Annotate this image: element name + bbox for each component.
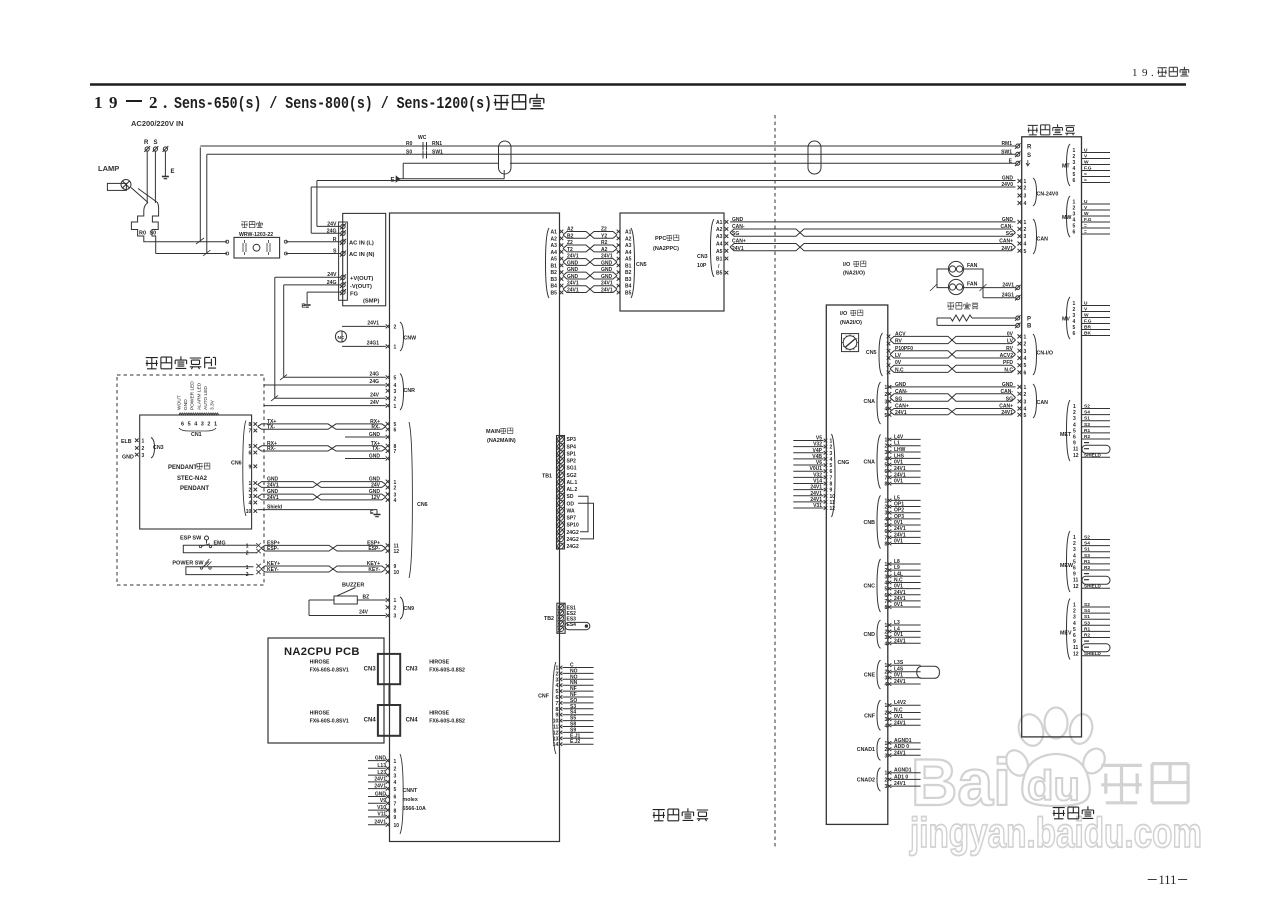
svg-text:CNE: CNE (864, 673, 876, 679)
svg-text:2: 2 (1073, 609, 1076, 615)
svg-text:A2: A2 (716, 227, 723, 233)
svg-text:S: S (333, 248, 337, 254)
svg-text:2: 2 (885, 392, 888, 398)
svg-text:I/O: I/O (843, 262, 851, 268)
svg-text:SW1: SW1 (432, 149, 443, 155)
shield wire and ground (258, 509, 377, 511)
svg-text:11: 11 (1073, 578, 1079, 584)
page header rule (90, 83, 1186, 86)
connector CN6 MAIN (386, 422, 390, 426)
svg-text:12: 12 (830, 506, 836, 512)
svg-text:MW: MW (1062, 215, 1071, 221)
svg-text:2: 2 (246, 550, 249, 556)
svg-text:8: 8 (394, 808, 397, 814)
svg-text:CN3: CN3 (364, 667, 377, 673)
svg-text:5: 5 (394, 376, 397, 382)
svg-text:1: 1 (830, 439, 833, 445)
svg-text:5: 5 (188, 422, 191, 428)
svg-text:7: 7 (885, 535, 888, 541)
svg-text:CN1: CN1 (191, 432, 202, 438)
svg-text:9: 9 (109, 93, 118, 112)
svg-text:6: 6 (830, 469, 833, 475)
svg-text:3: 3 (1073, 416, 1076, 422)
wire S0 output (155, 242, 157, 254)
svg-text:P: P (1027, 316, 1031, 322)
svg-text:FX6-60S-0.8S2: FX6-60S-0.8S2 (429, 719, 465, 725)
svg-text:2: 2 (885, 747, 888, 753)
svg-text:CNNT: CNNT (403, 788, 418, 794)
svg-text:CNAD1: CNAD1 (857, 747, 875, 753)
svg-text:+V(OUT): +V(OUT) (350, 276, 373, 282)
svg-text:HIROSE: HIROSE (429, 660, 449, 666)
svg-text:5: 5 (394, 787, 397, 793)
svg-text:1: 1 (1024, 220, 1027, 226)
wire RM1 top (200, 145, 1015, 147)
svg-text:FX6-60S-0.8S2: FX6-60S-0.8S2 (429, 668, 465, 674)
circuit breaker ELB body (131, 188, 158, 203)
svg-text:3: 3 (885, 784, 888, 790)
svg-text:CNR: CNR (404, 388, 416, 394)
svg-text:B1: B1 (716, 257, 723, 263)
svg-text:SP10: SP10 (567, 523, 579, 529)
label control box side (653, 810, 665, 821)
svg-text:B5: B5 (716, 271, 723, 277)
wire filter to PSU AC L (286, 241, 341, 243)
svg-text:CNF: CNF (538, 694, 550, 700)
noise filter box (234, 237, 280, 258)
svg-text:R0: R0 (406, 141, 413, 147)
svg-text:CN5: CN5 (636, 262, 647, 268)
svg-text:24V: 24V (359, 610, 369, 616)
svg-text:B2: B2 (625, 270, 632, 276)
svg-text:.: . (163, 93, 167, 112)
PSU terminal S (341, 251, 345, 255)
svg-text:MEV: MEV (1060, 631, 1072, 637)
svg-text:24V: 24V (370, 400, 380, 406)
svg-text:CNA: CNA (864, 459, 876, 465)
filter internal capacitors (243, 240, 246, 255)
svg-text:1: 1 (885, 437, 888, 443)
svg-text:10P: 10P (697, 263, 707, 269)
connector CNA I/O right (877, 382, 881, 424)
svg-text:12: 12 (1073, 453, 1079, 459)
svg-text:OD: OD (567, 501, 575, 507)
svg-text:4: 4 (394, 780, 397, 786)
svg-text:1: 1 (1132, 67, 1138, 79)
svg-text:HIROSE: HIROSE (429, 711, 449, 717)
svg-text:A2: A2 (625, 236, 632, 242)
wire GND rail top (317, 180, 1016, 182)
regenerative resistor label (947, 303, 954, 309)
svg-text:3.3V: 3.3V (210, 399, 216, 410)
svg-text:CND: CND (864, 632, 876, 638)
svg-text:24G: 24G (370, 379, 380, 385)
svg-text:4: 4 (394, 498, 397, 504)
svg-text:9: 9 (1142, 67, 1148, 79)
svg-text:GND: GND (122, 455, 134, 461)
svg-text:7: 7 (885, 475, 888, 481)
svg-text:NA2CPU PCB: NA2CPU PCB (284, 646, 360, 658)
svg-text:3: 3 (1024, 194, 1027, 200)
svg-text:CNF: CNF (864, 713, 876, 719)
svg-text:1: 1 (246, 565, 249, 571)
svg-text:A3: A3 (551, 243, 558, 249)
svg-text:1: 1 (394, 759, 397, 765)
svg-text:B5: B5 (625, 291, 632, 297)
svg-text:2: 2 (394, 486, 397, 492)
svg-text:B4: B4 (551, 284, 558, 290)
svg-text:24V1: 24V1 (367, 321, 379, 327)
svg-text:SD: SD (567, 494, 574, 500)
svg-text:1: 1 (249, 481, 252, 487)
svg-text:7: 7 (885, 599, 888, 605)
svg-text:CNAD2: CNAD2 (857, 777, 875, 783)
svg-text:B5: B5 (551, 291, 558, 297)
svg-text:1: 1 (1024, 385, 1027, 391)
TB2 jumper pill (565, 622, 590, 629)
svg-text:4: 4 (1073, 422, 1076, 428)
svg-text:A4: A4 (551, 250, 558, 256)
svg-text:2: 2 (149, 93, 158, 112)
svg-text:CN9: CN9 (404, 606, 415, 612)
svg-text:POWER SW: POWER SW (172, 561, 204, 567)
svg-text:3: 3 (885, 676, 888, 682)
terminal strip TB1 (557, 436, 565, 550)
svg-text:6: 6 (1024, 370, 1027, 376)
svg-text:MEW: MEW (1060, 563, 1073, 569)
svg-text:PPC: PPC (655, 236, 666, 242)
svg-text:/: / (718, 264, 720, 270)
svg-text:MV: MV (1062, 317, 1070, 323)
connector CN1 coils (179, 413, 219, 416)
svg-text:B4: B4 (625, 284, 632, 290)
svg-text:CAN+: CAN+ (732, 239, 746, 245)
svg-text:6: 6 (1073, 230, 1076, 236)
svg-text:4: 4 (194, 422, 198, 428)
svg-text:4: 4 (885, 723, 888, 729)
wire PSU 24G up to 24V0 rail (311, 232, 341, 234)
svg-text:11: 11 (830, 500, 836, 506)
svg-text:6: 6 (1073, 178, 1076, 184)
cable marker pill left (499, 141, 512, 174)
svg-text:1: 1 (394, 345, 397, 351)
connector CND (877, 620, 881, 648)
feeder tap R vertical (199, 147, 201, 241)
svg-text:5: 5 (830, 463, 833, 469)
wire PSU +V down rail (275, 276, 341, 278)
svg-text:24V1: 24V1 (732, 246, 744, 252)
svg-text:10: 10 (830, 494, 836, 500)
svg-text:5: 5 (885, 463, 888, 469)
cable marker pill right (808, 141, 821, 174)
wire E drop and arrow (402, 163, 404, 179)
operator box unit title (146, 358, 158, 369)
svg-text:9: 9 (1073, 441, 1076, 447)
svg-text:7: 7 (830, 475, 833, 481)
svg-text:8: 8 (885, 542, 888, 548)
wire bundle PPC to servo CAN (730, 221, 1016, 223)
svg-text:SP4: SP4 (567, 444, 577, 450)
connector CNF MAIN (553, 662, 556, 754)
svg-text:24V0: 24V0 (1001, 182, 1013, 188)
svg-text:7: 7 (249, 429, 252, 435)
fan wiring box (937, 269, 983, 288)
watermark baidu paw logo (1002, 708, 1109, 807)
svg-text:4: 4 (885, 407, 888, 413)
NA2CPU PCB box (268, 638, 384, 743)
svg-text:CN6: CN6 (231, 461, 242, 467)
svg-text:4: 4 (830, 457, 833, 463)
svg-text:5: 5 (249, 444, 252, 450)
svg-text:1: 1 (885, 498, 888, 504)
wire pair RX to CN6 (258, 446, 386, 449)
svg-text:4: 4 (1073, 621, 1076, 627)
svg-text:6: 6 (885, 529, 888, 535)
svg-text:12: 12 (394, 549, 400, 555)
svg-text:STEC-NA2: STEC-NA2 (177, 476, 208, 482)
svg-text:B1: B1 (551, 263, 558, 269)
CN6 GND stubs (345, 436, 386, 438)
svg-text:2: 2 (142, 446, 145, 452)
svg-text:6: 6 (249, 451, 252, 457)
svg-text:SP3: SP3 (567, 437, 577, 443)
dashed divider control-box / machine side (774, 115, 776, 847)
svg-text:3: 3 (201, 422, 204, 428)
svg-text:2: 2 (885, 444, 888, 450)
svg-text:4: 4 (885, 682, 888, 688)
svg-text:4: 4 (885, 641, 888, 647)
filter label (241, 222, 247, 228)
wire pair TX to CN6 (258, 424, 386, 427)
I/O board box NA2I/O (826, 305, 888, 824)
svg-text:A4: A4 (625, 250, 632, 256)
svg-text:A5: A5 (716, 249, 723, 255)
connector CN5 MAIN-PPC bundle (546, 228, 550, 298)
svg-text:SG: SG (732, 231, 739, 237)
svg-text:1: 1 (885, 385, 888, 391)
svg-text:5: 5 (1073, 428, 1076, 434)
svg-text:E: E (370, 510, 374, 516)
wire bundle CNA to servo CAN (890, 386, 1016, 388)
svg-text:A3: A3 (716, 234, 723, 240)
svg-text:jingyan.baidu.com: jingyan.baidu.com (909, 809, 1202, 856)
svg-text:4: 4 (885, 580, 888, 586)
svg-text:2: 2 (1024, 392, 1027, 398)
svg-text:11: 11 (1073, 645, 1079, 651)
svg-text:molex: molex (403, 797, 418, 803)
lamp symbol (107, 183, 126, 190)
svg-text:5: 5 (885, 523, 888, 529)
svg-text:ESP SW: ESP SW (180, 536, 202, 542)
MEV shield loop (1082, 644, 1110, 652)
terminal strip TB2 (557, 603, 565, 633)
svg-text:5566-10A: 5566-10A (403, 806, 426, 812)
svg-text:3: 3 (1073, 547, 1076, 553)
svg-text:1: 1 (94, 93, 103, 112)
svg-text:11: 11 (1073, 447, 1079, 453)
svg-text:3: 3 (394, 773, 397, 779)
NC motor circle (335, 331, 346, 342)
svg-text:3: 3 (142, 453, 145, 459)
connector CNW (386, 324, 390, 328)
svg-text:3: 3 (830, 451, 833, 457)
svg-text:6: 6 (885, 469, 888, 475)
svg-text:3: 3 (885, 450, 888, 456)
connector CNF (877, 700, 881, 730)
PPC right connector CN3 10P (711, 219, 715, 277)
connector MEW (1067, 531, 1071, 592)
svg-text:(NA2I/O): (NA2I/O) (843, 271, 865, 277)
svg-text:2: 2 (1073, 410, 1076, 416)
svg-text:du: du (1027, 762, 1080, 809)
svg-text:10: 10 (394, 823, 400, 829)
svg-text:I/O: I/O (840, 311, 848, 317)
connector MW (1067, 196, 1071, 237)
PSU terminal 24G (341, 231, 345, 235)
MEW shield loop (1082, 576, 1110, 584)
svg-text:CN3: CN3 (697, 254, 708, 260)
connector CNAD1 (877, 738, 881, 760)
svg-text:S0: S0 (150, 231, 157, 237)
ground E at input (164, 152, 166, 177)
svg-text:8: 8 (830, 481, 833, 487)
svg-text:14: 14 (553, 742, 559, 748)
svg-text:1: 1 (1073, 603, 1076, 609)
svg-text:2: 2 (885, 505, 888, 511)
svg-text:24G2: 24G2 (567, 530, 579, 536)
svg-text:CNW: CNW (404, 336, 417, 342)
svg-text:3: 3 (885, 717, 888, 723)
wire PSU 24V up to GND rail (317, 225, 341, 227)
svg-text:5: 5 (1024, 363, 1027, 369)
svg-text:B2: B2 (551, 270, 558, 276)
svg-text:WC: WC (418, 135, 427, 141)
svg-text:8: 8 (249, 422, 252, 428)
svg-text:1: 1 (142, 439, 145, 445)
svg-text:2: 2 (249, 488, 252, 494)
svg-text:3: 3 (1073, 615, 1076, 621)
svg-text:8: 8 (885, 482, 888, 488)
svg-text:A3: A3 (625, 243, 632, 249)
connector CNC (877, 559, 881, 612)
connector MV (1067, 297, 1071, 339)
svg-text:RM1: RM1 (1001, 141, 1012, 147)
ESP switch body (183, 545, 257, 553)
svg-text:2: 2 (885, 711, 888, 717)
ground E at PSU (304, 304, 311, 306)
svg-text:9: 9 (394, 815, 397, 821)
svg-text:4: 4 (1073, 553, 1076, 559)
rotary switch (842, 334, 859, 352)
svg-text:AUTO LED: AUTO LED (203, 386, 209, 410)
svg-text:3: 3 (885, 753, 888, 759)
svg-text:9: 9 (830, 488, 833, 494)
svg-text:E: E (171, 169, 175, 175)
svg-text:MAIN: MAIN (486, 429, 500, 435)
svg-text:FX6-60S-0.8SV1: FX6-60S-0.8SV1 (310, 668, 349, 674)
watermark jingyan characters (1101, 765, 1142, 802)
svg-text:4: 4 (1024, 356, 1027, 362)
svg-text:6: 6 (1073, 331, 1076, 337)
svg-text:AC200/220V IN: AC200/220V IN (131, 119, 184, 128)
connector CN5 I/O (879, 333, 883, 376)
svg-text:7: 7 (394, 802, 397, 808)
svg-text:24G2: 24G2 (567, 537, 579, 543)
svg-text:1: 1 (885, 703, 888, 709)
svg-text:AC IN (N): AC IN (N) (349, 252, 375, 258)
svg-text:2: 2 (394, 767, 397, 773)
svg-text:2: 2 (207, 422, 210, 428)
connector MET (1067, 400, 1071, 461)
svg-text:CN3: CN3 (153, 445, 164, 451)
svg-text:2: 2 (1024, 227, 1027, 233)
svg-text:5: 5 (885, 413, 888, 419)
svg-text:6: 6 (1073, 566, 1076, 572)
MAIN board box NA2MAIN (390, 213, 560, 842)
svg-text:4: 4 (885, 517, 888, 523)
power supply SMP box (343, 213, 386, 305)
PSU terminal strip (339, 222, 348, 300)
svg-text:ALARM LED: ALARM LED (196, 382, 202, 410)
pendant dashed enclosure (117, 375, 264, 585)
svg-text:CNG: CNG (838, 460, 850, 466)
svg-text:(SMP): (SMP) (363, 299, 379, 305)
svg-text:6: 6 (394, 795, 397, 801)
svg-text:4: 4 (249, 501, 252, 507)
connector CNE (877, 660, 881, 689)
svg-text:6: 6 (885, 593, 888, 599)
wire SW1 top (207, 153, 1016, 155)
svg-text:E: E (302, 304, 306, 310)
svg-text:CNA: CNA (864, 399, 876, 405)
svg-text:24V: 24V (370, 392, 380, 398)
svg-text:MET: MET (1060, 432, 1072, 438)
POWER switch body (186, 567, 254, 575)
CNW wires (342, 325, 386, 327)
servo terminal B (1016, 323, 1020, 327)
svg-text:S: S (154, 140, 158, 146)
svg-text:1: 1 (246, 544, 249, 550)
svg-text:CN6: CN6 (417, 502, 428, 508)
PSU terminal 24V (341, 275, 345, 279)
svg-text:1: 1 (394, 404, 397, 410)
svg-text:1: 1 (885, 623, 888, 629)
svg-text:CAN-: CAN- (732, 224, 745, 230)
PSU terminal R (341, 240, 345, 244)
svg-text:(NA2PPC): (NA2PPC) (653, 246, 679, 252)
svg-text:SW1: SW1 (1001, 149, 1012, 155)
svg-text:BUZZER: BUZZER (342, 583, 364, 589)
svg-text:B: B (1027, 324, 1032, 330)
svg-text:GND: GND (732, 217, 744, 223)
svg-text:CNB: CNB (864, 520, 876, 526)
svg-text:2: 2 (1024, 342, 1027, 348)
svg-text:R: R (333, 237, 337, 243)
servo unit title (1028, 125, 1038, 134)
connector MEV (1067, 599, 1071, 660)
svg-text:CAN: CAN (1037, 400, 1049, 406)
svg-text:4: 4 (885, 456, 888, 462)
svg-text:5: 5 (1073, 627, 1076, 633)
svg-text:3: 3 (885, 399, 888, 405)
CNE jumper pill (917, 666, 940, 678)
svg-text:SP1: SP1 (567, 451, 577, 457)
connector CN9 (386, 598, 390, 602)
svg-text:CN3: CN3 (406, 667, 419, 673)
svg-text:6: 6 (394, 428, 397, 434)
svg-text:R: R (144, 140, 149, 146)
svg-text:SP2: SP2 (567, 459, 577, 465)
